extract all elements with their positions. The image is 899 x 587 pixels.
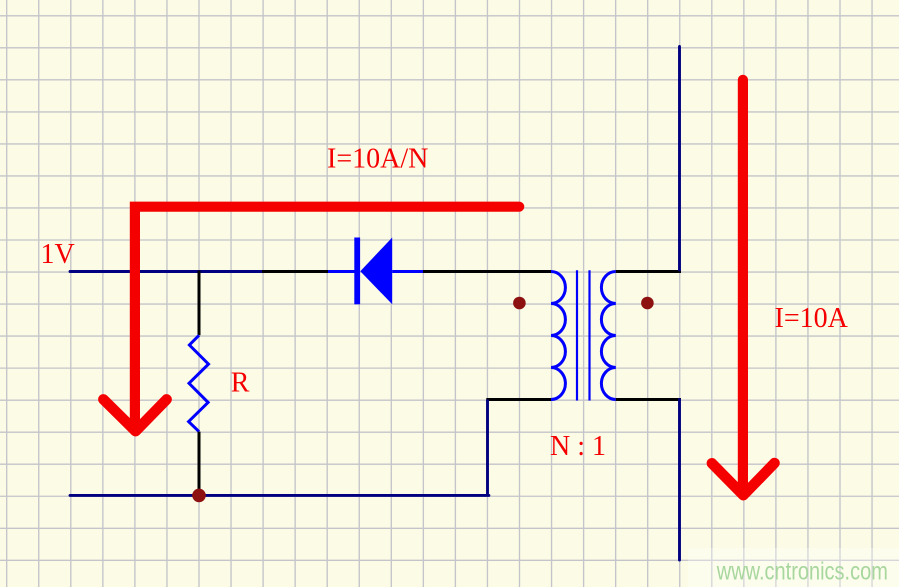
wire: top horizontal black segment after diode to transformer bbox=[423, 270, 551, 273]
label I=10A bbox=[775, 303, 849, 334]
wire: navy right rail upper vertical bbox=[678, 47, 681, 271]
svg-text:I=10A: I=10A bbox=[775, 303, 849, 334]
label I=10A/N bbox=[327, 144, 428, 175]
polarity dot (primary side) bbox=[513, 297, 526, 310]
svg-text:R: R bbox=[231, 368, 250, 399]
transformer T1 secondary winding (right, blue) bbox=[601, 272, 615, 400]
wire: navy right rail lower vertical bbox=[678, 400, 681, 561]
wire: black bottom-left from primary winding bbox=[486, 398, 551, 401]
wire: navy vertical return (left of transformer) bbox=[486, 400, 489, 496]
current arrow I=10A/N (red, top loop: right end to down-left arrow) bbox=[103, 207, 519, 432]
watermark background panel bbox=[688, 548, 899, 587]
svg-text:www.cntronics.com: www.cntronics.com bbox=[716, 557, 888, 585]
svg-text:1V: 1V bbox=[41, 239, 75, 270]
wire: top horizontal black segment before diode bbox=[262, 270, 328, 273]
resistor R top lead (black) bbox=[198, 271, 201, 336]
polarity dot (secondary side) bbox=[641, 297, 654, 310]
diode D1 (pointing left, blue) bbox=[328, 238, 423, 305]
junction dot at bottom node bbox=[192, 489, 206, 503]
label 1V bbox=[41, 239, 75, 270]
transformer T1 core (two vertical lines) bbox=[577, 270, 590, 400]
svg-text:N : 1: N : 1 bbox=[550, 431, 606, 462]
current arrow I=10A (red, right side pointing down) bbox=[712, 80, 775, 495]
resistor R bottom lead (black) bbox=[198, 432, 201, 496]
watermark www.cntronics.com bbox=[716, 557, 888, 585]
wire: top-left horizontal (navy) from 1V node to black segment bbox=[70, 270, 262, 273]
svg-text:I=10A/N: I=10A/N bbox=[327, 144, 428, 175]
label N : 1 bbox=[550, 431, 606, 462]
label R bbox=[231, 368, 250, 399]
transformer T1 primary winding (left, blue) bbox=[551, 272, 565, 400]
wire: navy bottom return horizontal bbox=[70, 494, 489, 497]
resistor R zigzag (blue) bbox=[189, 335, 209, 431]
wire: black top-right from secondary to right rail bbox=[616, 270, 681, 273]
wire: black bottom-right from secondary to right rail bbox=[616, 398, 681, 401]
